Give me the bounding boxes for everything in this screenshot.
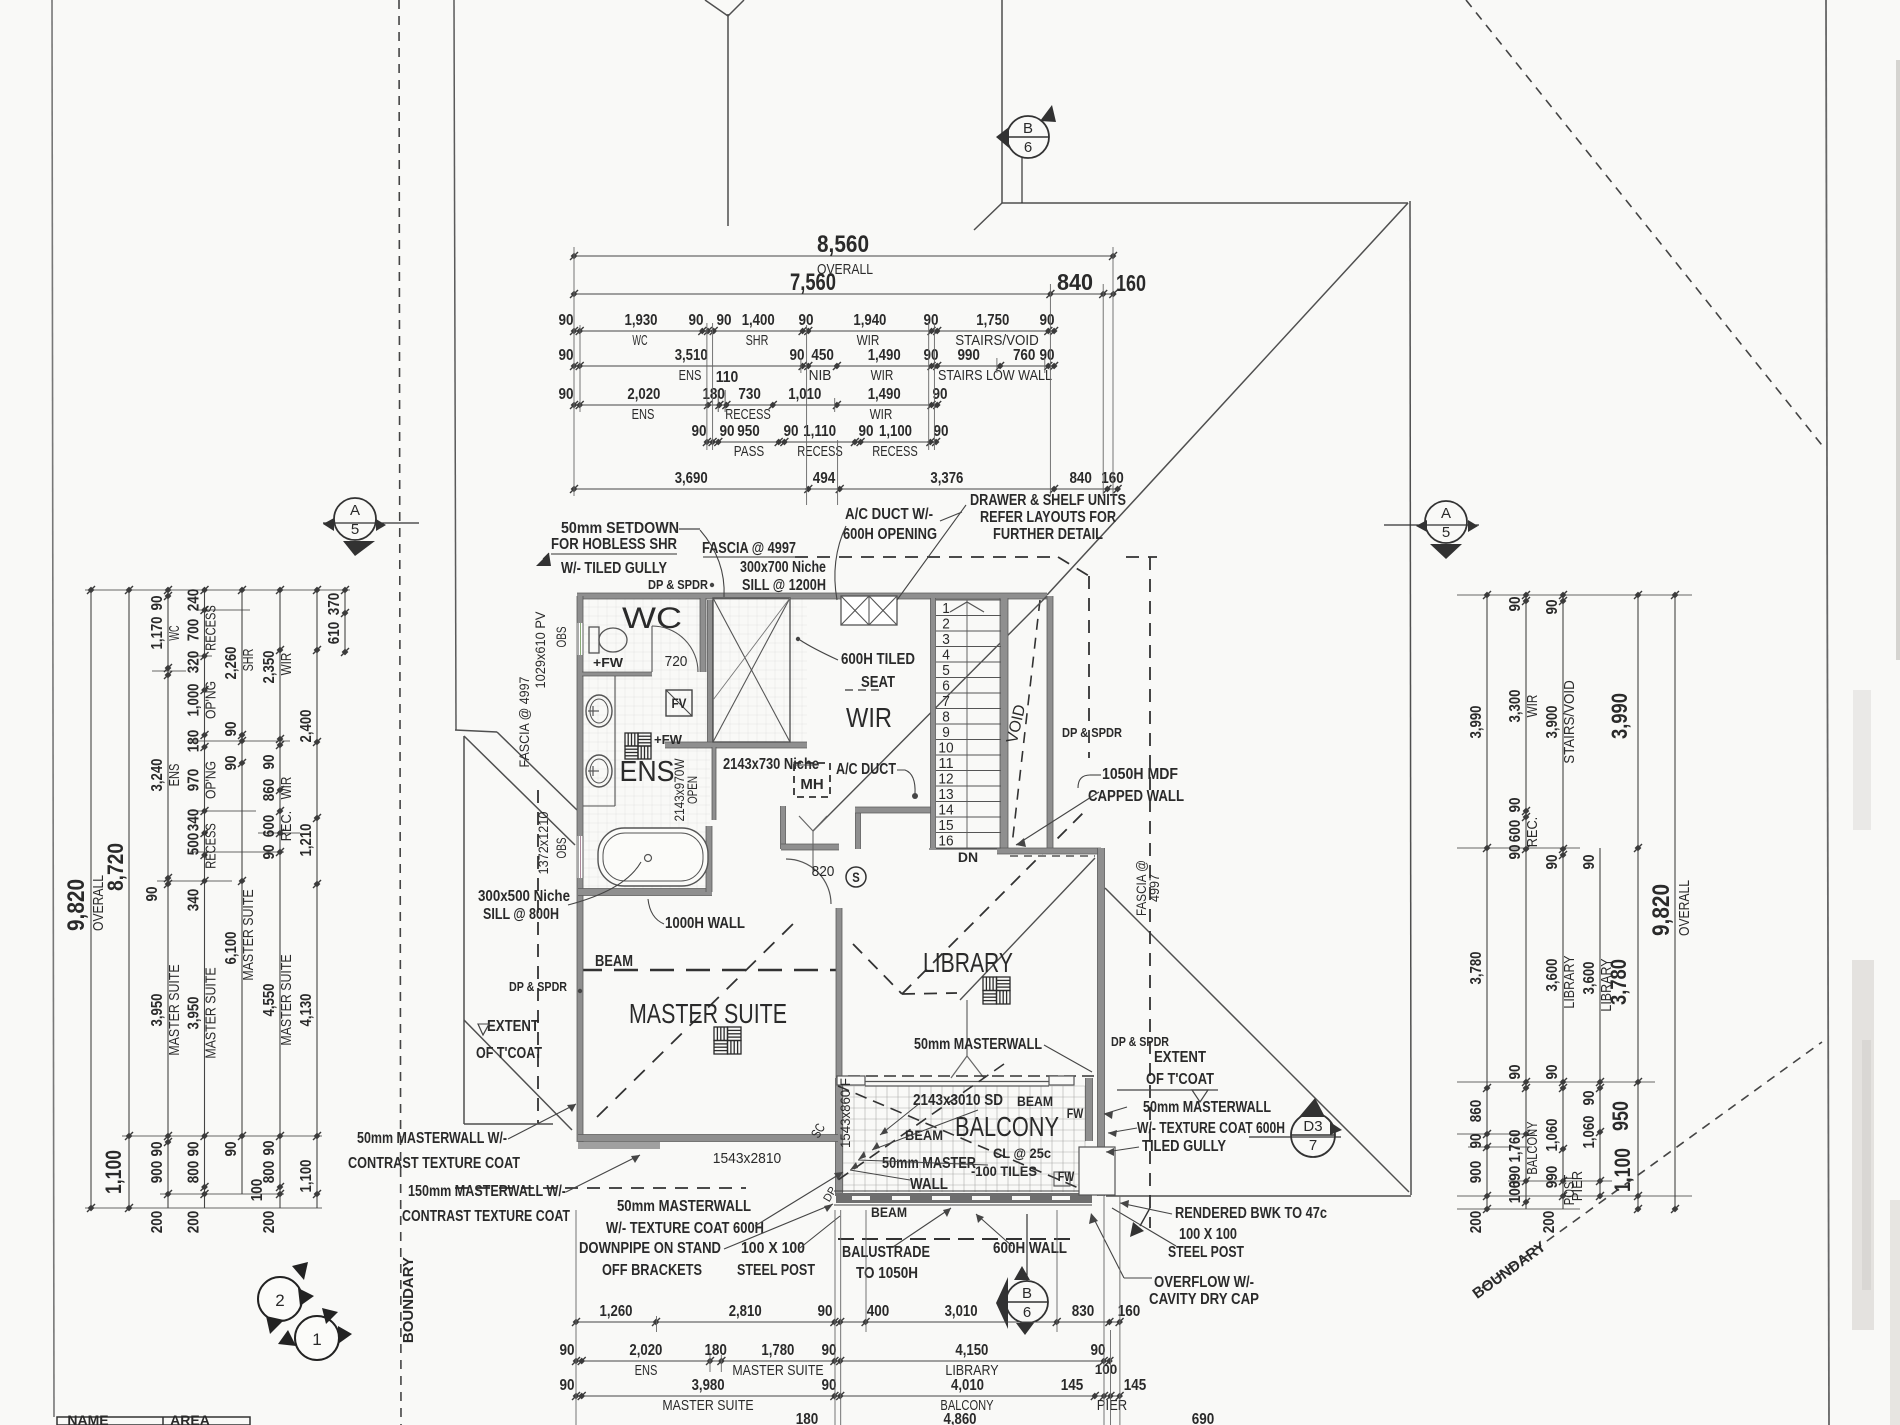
svg-text:NAME: NAME bbox=[67, 1412, 108, 1425]
svg-text:SHR: SHR bbox=[746, 333, 769, 349]
svg-text:3,950: 3,950 bbox=[186, 996, 203, 1029]
svg-text:100 X 100: 100 X 100 bbox=[1179, 1226, 1237, 1243]
svg-text:860: 860 bbox=[261, 779, 278, 802]
svg-text:A: A bbox=[1441, 505, 1451, 522]
svg-text:950: 950 bbox=[1608, 1101, 1633, 1131]
svg-text:200: 200 bbox=[149, 1211, 166, 1234]
svg-text:90: 90 bbox=[223, 1141, 240, 1156]
svg-text:690: 690 bbox=[1507, 1166, 1524, 1189]
svg-text:180: 180 bbox=[702, 386, 725, 403]
svg-text:900: 900 bbox=[149, 1161, 166, 1184]
svg-text:MASTER SUITE: MASTER SUITE bbox=[662, 1398, 753, 1414]
svg-text:3,010: 3,010 bbox=[945, 1303, 978, 1320]
svg-text:9,820: 9,820 bbox=[1648, 884, 1675, 936]
svg-text:4,150: 4,150 bbox=[955, 1342, 988, 1359]
svg-text:90: 90 bbox=[689, 312, 704, 329]
svg-text:RECESS: RECESS bbox=[797, 444, 843, 460]
svg-text:OBS: OBS bbox=[554, 627, 569, 648]
svg-text:2,020: 2,020 bbox=[627, 386, 660, 403]
svg-text:BOUNDARY: BOUNDARY bbox=[400, 1257, 417, 1343]
svg-text:100 X 100: 100 X 100 bbox=[741, 1240, 805, 1257]
svg-text:EXTENT: EXTENT bbox=[487, 1018, 539, 1035]
svg-text:830: 830 bbox=[1072, 1303, 1095, 1320]
svg-text:ENS: ENS bbox=[167, 764, 183, 787]
svg-text:W/- TEXTURE COAT 600H: W/- TEXTURE COAT 600H bbox=[1137, 1120, 1285, 1137]
svg-text:600: 600 bbox=[261, 815, 278, 838]
svg-text:1,100: 1,100 bbox=[298, 1159, 315, 1192]
svg-text:REC.: REC. bbox=[1525, 817, 1541, 847]
svg-text:MASTER SUITE: MASTER SUITE bbox=[629, 998, 787, 1029]
svg-text:MASTER SUITE: MASTER SUITE bbox=[204, 967, 220, 1058]
svg-text:DP & SPDR: DP & SPDR bbox=[1111, 1035, 1169, 1049]
svg-text:BALUSTRADE: BALUSTRADE bbox=[842, 1244, 930, 1261]
svg-text:4997: 4997 bbox=[1147, 874, 1162, 902]
svg-text:1,760: 1,760 bbox=[1507, 1129, 1524, 1162]
svg-text:REFER LAYOUTS FOR: REFER LAYOUTS FOR bbox=[980, 509, 1116, 526]
svg-text:990: 990 bbox=[1544, 1166, 1561, 1189]
svg-text:DP & SPDR: DP & SPDR bbox=[648, 578, 708, 592]
svg-text:2,810: 2,810 bbox=[729, 1303, 762, 1320]
svg-text:OP'NG: OP'NG bbox=[204, 681, 220, 719]
svg-text:90: 90 bbox=[559, 312, 574, 329]
svg-text:MASTER SUITE: MASTER SUITE bbox=[279, 954, 295, 1045]
svg-text:90: 90 bbox=[720, 423, 735, 440]
svg-text:BALCONY: BALCONY bbox=[955, 1111, 1059, 1142]
svg-text:180: 180 bbox=[796, 1411, 819, 1425]
svg-text:MASTER SUITE: MASTER SUITE bbox=[732, 1363, 823, 1379]
svg-text:SILL @ 800H: SILL @ 800H bbox=[483, 906, 559, 923]
svg-text:200: 200 bbox=[186, 1211, 203, 1234]
svg-text:90: 90 bbox=[799, 312, 814, 329]
svg-text:OPEN: OPEN bbox=[685, 776, 700, 804]
svg-text:90: 90 bbox=[1507, 844, 1524, 859]
svg-text:1,060: 1,060 bbox=[1581, 1115, 1598, 1148]
svg-text:16: 16 bbox=[938, 834, 953, 850]
svg-text:LIBRARY: LIBRARY bbox=[1562, 955, 1578, 1008]
svg-text:STAIRS/VOID: STAIRS/VOID bbox=[1562, 680, 1578, 764]
svg-text:90: 90 bbox=[859, 423, 874, 440]
svg-text:8: 8 bbox=[942, 710, 950, 726]
svg-text:WIR: WIR bbox=[1525, 695, 1541, 718]
svg-text:SILL @ 1200H: SILL @ 1200H bbox=[742, 577, 826, 594]
svg-text:1372x1210: 1372x1210 bbox=[536, 812, 551, 875]
svg-text:3,600: 3,600 bbox=[1581, 961, 1598, 994]
svg-text:90: 90 bbox=[1544, 599, 1561, 614]
svg-text:450: 450 bbox=[811, 347, 834, 364]
svg-text:BALCONY: BALCONY bbox=[1525, 1121, 1541, 1174]
svg-text:2,260: 2,260 bbox=[223, 646, 240, 679]
svg-text:90: 90 bbox=[1091, 1342, 1106, 1359]
svg-text:OP'NG: OP'NG bbox=[204, 761, 220, 799]
svg-text:WIR: WIR bbox=[279, 777, 295, 800]
svg-text:FURTHER DETAIL: FURTHER DETAIL bbox=[993, 526, 1103, 543]
svg-text:BEAM: BEAM bbox=[595, 953, 633, 970]
svg-text:WC: WC bbox=[622, 602, 682, 635]
svg-text:W/- TILED GULLY: W/- TILED GULLY bbox=[561, 560, 668, 577]
svg-text:990: 990 bbox=[957, 347, 980, 364]
svg-text:1,100: 1,100 bbox=[101, 1150, 126, 1194]
svg-text:3,300: 3,300 bbox=[1507, 689, 1524, 722]
svg-text:8,560: 8,560 bbox=[817, 231, 869, 258]
svg-text:OFF BRACKETS: OFF BRACKETS bbox=[602, 1262, 702, 1279]
svg-text:610: 610 bbox=[326, 622, 343, 645]
svg-text:145: 145 bbox=[1124, 1377, 1147, 1394]
svg-text:494: 494 bbox=[813, 470, 836, 487]
svg-text:3: 3 bbox=[942, 632, 950, 648]
svg-text:7: 7 bbox=[1309, 1137, 1317, 1154]
svg-text:WALL: WALL bbox=[910, 1176, 948, 1193]
svg-text:STEEL POST: STEEL POST bbox=[1168, 1244, 1244, 1261]
svg-text:FASCIA @ 4997: FASCIA @ 4997 bbox=[517, 677, 532, 768]
svg-text:SEAT: SEAT bbox=[861, 674, 895, 691]
svg-text:1,940: 1,940 bbox=[853, 312, 886, 329]
svg-text:90: 90 bbox=[261, 1140, 278, 1155]
svg-text:90: 90 bbox=[223, 721, 240, 736]
svg-text:CONTRAST TEXTURE COAT: CONTRAST TEXTURE COAT bbox=[348, 1155, 520, 1172]
svg-text:ENS: ENS bbox=[635, 1363, 658, 1379]
svg-text:10: 10 bbox=[938, 741, 953, 757]
svg-text:50mm MASTERWALL: 50mm MASTERWALL bbox=[1143, 1099, 1271, 1116]
svg-text:WIR: WIR bbox=[279, 653, 295, 676]
svg-text:100: 100 bbox=[249, 1179, 266, 1202]
svg-text:90: 90 bbox=[717, 312, 732, 329]
svg-text:A: A bbox=[350, 502, 360, 519]
svg-text:840: 840 bbox=[1057, 269, 1093, 295]
svg-text:1543x860 F: 1543x860 F bbox=[838, 1078, 853, 1148]
svg-text:1,100: 1,100 bbox=[1610, 1148, 1635, 1192]
svg-text:PIER: PIER bbox=[1570, 1171, 1586, 1201]
svg-text:CAPPED WALL: CAPPED WALL bbox=[1088, 788, 1184, 805]
svg-text:160: 160 bbox=[1101, 470, 1124, 487]
svg-text:4,860: 4,860 bbox=[944, 1411, 977, 1425]
svg-text:MASTER SUITE: MASTER SUITE bbox=[241, 889, 257, 980]
svg-text:WIR: WIR bbox=[871, 368, 894, 384]
svg-text:PASS: PASS bbox=[734, 444, 764, 460]
svg-text:FOR HOBLESS SHR: FOR HOBLESS SHR bbox=[551, 536, 677, 553]
svg-text:OVERALL: OVERALL bbox=[1677, 880, 1693, 936]
svg-text:840: 840 bbox=[1069, 470, 1092, 487]
svg-text:3,990: 3,990 bbox=[1607, 693, 1632, 739]
svg-text:90: 90 bbox=[1040, 347, 1055, 364]
svg-text:CAVITY DRY CAP: CAVITY DRY CAP bbox=[1149, 1291, 1259, 1308]
svg-text:OBS: OBS bbox=[554, 838, 569, 859]
svg-text:TILED GULLY: TILED GULLY bbox=[1142, 1138, 1227, 1155]
svg-text:DP & SPDR: DP & SPDR bbox=[509, 980, 567, 994]
svg-text:CONTRAST TEXTURE COAT: CONTRAST TEXTURE COAT bbox=[402, 1208, 570, 1225]
svg-text:3,980: 3,980 bbox=[692, 1377, 725, 1394]
svg-text:TO 1050H: TO 1050H bbox=[856, 1265, 918, 1282]
svg-text:600H OPENING: 600H OPENING bbox=[843, 526, 937, 543]
svg-text:CL @ 25c: CL @ 25c bbox=[993, 1146, 1051, 1161]
svg-text:90: 90 bbox=[1544, 1064, 1561, 1079]
svg-text:300x500 Niche: 300x500 Niche bbox=[478, 888, 570, 905]
svg-text:OVERFLOW W/-: OVERFLOW W/- bbox=[1154, 1274, 1254, 1291]
svg-text:REC.: REC. bbox=[279, 811, 295, 841]
svg-text:1,780: 1,780 bbox=[761, 1342, 794, 1359]
svg-text:90: 90 bbox=[924, 347, 939, 364]
svg-text:DP & SPDR: DP & SPDR bbox=[1062, 726, 1122, 740]
svg-text:RECESS: RECESS bbox=[725, 407, 771, 423]
svg-text:+FW: +FW bbox=[593, 655, 624, 670]
svg-text:50mm MASTERWALL: 50mm MASTERWALL bbox=[914, 1036, 1042, 1053]
svg-text:2,020: 2,020 bbox=[629, 1342, 662, 1359]
svg-text:1000H WALL: 1000H WALL bbox=[665, 915, 745, 932]
svg-text:150mm MASTERWALL W/-: 150mm MASTERWALL W/- bbox=[408, 1183, 566, 1200]
svg-text:370: 370 bbox=[326, 593, 343, 616]
svg-text:AREA: AREA bbox=[170, 1412, 210, 1425]
svg-text:90: 90 bbox=[186, 1141, 203, 1156]
svg-text:7,560: 7,560 bbox=[790, 269, 836, 296]
svg-text:160: 160 bbox=[1118, 1303, 1141, 1320]
svg-text:50mm MASTERWALL: 50mm MASTERWALL bbox=[617, 1198, 751, 1215]
svg-text:900: 900 bbox=[1468, 1161, 1485, 1184]
svg-text:50mm MASTERWALL W/-: 50mm MASTERWALL W/- bbox=[357, 1130, 507, 1147]
svg-text:3,376: 3,376 bbox=[930, 470, 963, 487]
svg-text:90: 90 bbox=[784, 423, 799, 440]
svg-text:ENS: ENS bbox=[679, 368, 702, 384]
svg-text:RECESS: RECESS bbox=[872, 444, 918, 460]
svg-text:90: 90 bbox=[1544, 854, 1561, 869]
svg-text:90: 90 bbox=[560, 1342, 575, 1359]
svg-text:W/- TEXTURE COAT 600H: W/- TEXTURE COAT 600H bbox=[606, 1220, 764, 1237]
svg-text:1,400: 1,400 bbox=[742, 312, 775, 329]
svg-text:5: 5 bbox=[942, 663, 950, 679]
svg-text:2: 2 bbox=[275, 1291, 284, 1310]
svg-text:90: 90 bbox=[261, 844, 278, 859]
svg-text:1,170: 1,170 bbox=[149, 616, 166, 649]
svg-text:90: 90 bbox=[223, 755, 240, 770]
svg-text:820: 820 bbox=[812, 863, 835, 880]
svg-text:700: 700 bbox=[186, 619, 203, 642]
svg-text:180: 180 bbox=[704, 1342, 727, 1359]
svg-text:14: 14 bbox=[938, 803, 953, 819]
svg-text:FW: FW bbox=[1058, 1168, 1075, 1184]
svg-text:DRAWER & SHELF UNITS: DRAWER & SHELF UNITS bbox=[970, 492, 1126, 509]
svg-text:3,780: 3,780 bbox=[1468, 951, 1485, 984]
svg-text:11: 11 bbox=[938, 756, 953, 772]
svg-text:200: 200 bbox=[1468, 1211, 1485, 1234]
svg-text:200: 200 bbox=[1541, 1211, 1558, 1234]
svg-text:2143x3010 SD: 2143x3010 SD bbox=[913, 1092, 1003, 1109]
svg-text:860: 860 bbox=[1468, 1100, 1485, 1123]
svg-text:110: 110 bbox=[716, 369, 739, 386]
svg-text:WC: WC bbox=[167, 625, 183, 640]
svg-text:100: 100 bbox=[1095, 1362, 1118, 1377]
svg-text:4,010: 4,010 bbox=[951, 1377, 984, 1394]
svg-text:PIER: PIER bbox=[1097, 1398, 1127, 1414]
svg-text:13: 13 bbox=[938, 787, 953, 803]
svg-text:12: 12 bbox=[938, 772, 953, 788]
svg-text:ENS: ENS bbox=[632, 407, 655, 423]
svg-text:FV: FV bbox=[672, 696, 687, 711]
svg-text:RECESS: RECESS bbox=[204, 605, 220, 651]
svg-text:1,110: 1,110 bbox=[803, 423, 836, 440]
svg-text:S: S bbox=[852, 870, 860, 885]
svg-text:RECESS: RECESS bbox=[204, 823, 220, 869]
svg-text:BEAM: BEAM bbox=[871, 1205, 907, 1220]
svg-text:1,000: 1,000 bbox=[186, 683, 203, 716]
svg-text:90: 90 bbox=[559, 386, 574, 403]
svg-text:400: 400 bbox=[867, 1303, 890, 1320]
svg-text:WIR: WIR bbox=[846, 702, 892, 733]
svg-text:MASTER SUITE: MASTER SUITE bbox=[167, 964, 183, 1055]
svg-text:90: 90 bbox=[934, 423, 949, 440]
svg-text:D3: D3 bbox=[1303, 1118, 1322, 1135]
svg-text:ENS: ENS bbox=[620, 756, 675, 788]
svg-text:6: 6 bbox=[1023, 1304, 1031, 1321]
svg-text:240: 240 bbox=[186, 589, 203, 612]
svg-text:1,060: 1,060 bbox=[1544, 1118, 1561, 1151]
svg-text:90: 90 bbox=[822, 1377, 837, 1394]
svg-text:MH: MH bbox=[800, 776, 823, 793]
svg-text:180: 180 bbox=[186, 730, 203, 753]
svg-text:90: 90 bbox=[149, 1141, 166, 1156]
svg-text:BEAM: BEAM bbox=[1017, 1094, 1053, 1109]
svg-text:90: 90 bbox=[1040, 312, 1055, 329]
svg-text:1,100: 1,100 bbox=[879, 423, 912, 440]
svg-text:600: 600 bbox=[1507, 820, 1524, 843]
svg-text:1029x610 PV: 1029x610 PV bbox=[533, 612, 548, 689]
svg-text:200: 200 bbox=[261, 1211, 278, 1234]
svg-text:3,510: 3,510 bbox=[675, 347, 708, 364]
svg-text:90: 90 bbox=[1581, 1090, 1598, 1105]
svg-text:15: 15 bbox=[938, 818, 953, 834]
svg-text:90: 90 bbox=[822, 1342, 837, 1359]
svg-text:90: 90 bbox=[1507, 596, 1524, 611]
svg-text:950: 950 bbox=[737, 423, 760, 440]
svg-text:320: 320 bbox=[186, 651, 203, 674]
svg-text:970: 970 bbox=[186, 769, 203, 792]
svg-text:1,260: 1,260 bbox=[600, 1303, 633, 1320]
svg-text:90: 90 bbox=[1581, 854, 1598, 869]
svg-text:WC: WC bbox=[632, 333, 647, 349]
svg-text:90: 90 bbox=[692, 423, 707, 440]
svg-text:2,400: 2,400 bbox=[298, 709, 315, 742]
svg-text:4: 4 bbox=[942, 648, 950, 664]
svg-text:5: 5 bbox=[1442, 524, 1450, 541]
svg-text:90: 90 bbox=[790, 347, 805, 364]
svg-text:3,900: 3,900 bbox=[1544, 705, 1561, 738]
svg-text:A/C DUCT: A/C DUCT bbox=[836, 761, 896, 778]
svg-text:800: 800 bbox=[186, 1161, 203, 1184]
svg-text:4,550: 4,550 bbox=[261, 983, 278, 1016]
svg-text:6,100: 6,100 bbox=[223, 931, 240, 964]
svg-text:1543x2810: 1543x2810 bbox=[713, 1150, 781, 1167]
svg-text:OF T'COAT: OF T'COAT bbox=[1146, 1071, 1214, 1088]
svg-text:340: 340 bbox=[186, 809, 203, 832]
svg-text:B: B bbox=[1023, 120, 1033, 137]
svg-text:STAIRS LOW WALL: STAIRS LOW WALL bbox=[938, 368, 1052, 384]
svg-text:1,010: 1,010 bbox=[788, 386, 821, 403]
svg-text:2,350: 2,350 bbox=[261, 650, 278, 683]
svg-text:50mm SETDOWN: 50mm SETDOWN bbox=[561, 520, 679, 537]
svg-text:9: 9 bbox=[942, 725, 950, 741]
svg-text:4,130: 4,130 bbox=[298, 993, 315, 1026]
svg-text:7: 7 bbox=[942, 694, 950, 710]
svg-text:DOWNPIPE ON STAND: DOWNPIPE ON STAND bbox=[579, 1240, 721, 1257]
svg-text:3,950: 3,950 bbox=[149, 993, 166, 1026]
svg-text:1,490: 1,490 bbox=[868, 347, 901, 364]
svg-text:8,720: 8,720 bbox=[103, 843, 128, 891]
svg-text:3,600: 3,600 bbox=[1544, 958, 1561, 991]
svg-text:90: 90 bbox=[1507, 1064, 1524, 1079]
svg-text:LIBRARY: LIBRARY bbox=[923, 947, 1013, 978]
svg-text:B: B bbox=[1022, 1285, 1032, 1302]
svg-text:90: 90 bbox=[1468, 1133, 1485, 1148]
svg-text:160: 160 bbox=[1116, 270, 1146, 296]
svg-text:9,820: 9,820 bbox=[63, 879, 90, 931]
svg-text:300x700 Niche: 300x700 Niche bbox=[740, 559, 826, 576]
svg-text:STEEL POST: STEEL POST bbox=[737, 1262, 815, 1279]
svg-text:OF T'COAT: OF T'COAT bbox=[476, 1045, 542, 1062]
svg-text:600H WALL: 600H WALL bbox=[993, 1240, 1067, 1257]
svg-text:90: 90 bbox=[818, 1303, 833, 1320]
svg-text:1: 1 bbox=[312, 1330, 321, 1349]
svg-text:600H TILED: 600H TILED bbox=[841, 651, 915, 668]
svg-text:WIR: WIR bbox=[870, 407, 893, 423]
svg-text:90: 90 bbox=[261, 754, 278, 769]
svg-text:1: 1 bbox=[942, 601, 950, 617]
svg-text:+FW: +FW bbox=[654, 732, 683, 747]
svg-text:90: 90 bbox=[559, 347, 574, 364]
svg-text:3,990: 3,990 bbox=[1468, 705, 1485, 738]
svg-text:RENDERED BWK TO 47c: RENDERED BWK TO 47c bbox=[1175, 1205, 1327, 1222]
svg-text:500: 500 bbox=[186, 833, 203, 856]
svg-text:NIB: NIB bbox=[809, 368, 832, 384]
svg-text:760: 760 bbox=[1013, 347, 1036, 364]
svg-text:1,750: 1,750 bbox=[976, 312, 1009, 329]
svg-text:1,210: 1,210 bbox=[298, 823, 315, 856]
svg-text:1,490: 1,490 bbox=[868, 386, 901, 403]
svg-text:6: 6 bbox=[942, 679, 950, 695]
svg-text:690: 690 bbox=[1192, 1411, 1215, 1425]
svg-text:3,690: 3,690 bbox=[675, 470, 708, 487]
svg-text:3,780: 3,780 bbox=[1606, 959, 1631, 1005]
svg-text:DN: DN bbox=[958, 849, 978, 865]
svg-text:-100 TILES: -100 TILES bbox=[971, 1164, 1037, 1179]
svg-text:A/C DUCT W/-: A/C DUCT W/- bbox=[845, 506, 933, 523]
svg-text:340: 340 bbox=[186, 889, 203, 912]
svg-text:730: 730 bbox=[738, 386, 761, 403]
svg-text:SHR: SHR bbox=[241, 649, 257, 672]
svg-text:EXTENT: EXTENT bbox=[1154, 1049, 1206, 1066]
svg-text:90: 90 bbox=[560, 1377, 575, 1394]
svg-text:90: 90 bbox=[149, 595, 166, 610]
svg-text:FW: FW bbox=[1067, 1105, 1084, 1121]
svg-text:2: 2 bbox=[942, 617, 950, 633]
svg-text:90: 90 bbox=[924, 312, 939, 329]
svg-text:145: 145 bbox=[1061, 1377, 1084, 1394]
svg-text:1050H MDF: 1050H MDF bbox=[1102, 766, 1178, 783]
svg-text:720: 720 bbox=[665, 653, 688, 670]
svg-text:90: 90 bbox=[1507, 797, 1524, 812]
svg-text:90: 90 bbox=[144, 886, 161, 901]
svg-text:6: 6 bbox=[1024, 139, 1032, 156]
svg-text:1,930: 1,930 bbox=[625, 312, 658, 329]
svg-text:3,240: 3,240 bbox=[149, 758, 166, 791]
